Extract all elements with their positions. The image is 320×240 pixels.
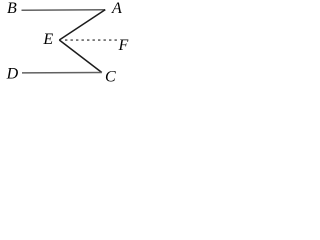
wire top line BA — [22, 9, 106, 12]
svg-text:F: F — [118, 37, 129, 54]
wire segment A-corner to E — [59, 10, 105, 40]
svg-text:D: D — [6, 66, 19, 83]
svg-text:B: B — [7, 0, 17, 17]
wire segment E to C — [59, 40, 102, 73]
wire dashed ray EF — [65, 39, 118, 41]
svg-text:E: E — [42, 31, 53, 48]
wire bottom line DC — [22, 72, 102, 74]
svg-text:A: A — [111, 0, 122, 17]
svg-text:C: C — [105, 68, 116, 85]
